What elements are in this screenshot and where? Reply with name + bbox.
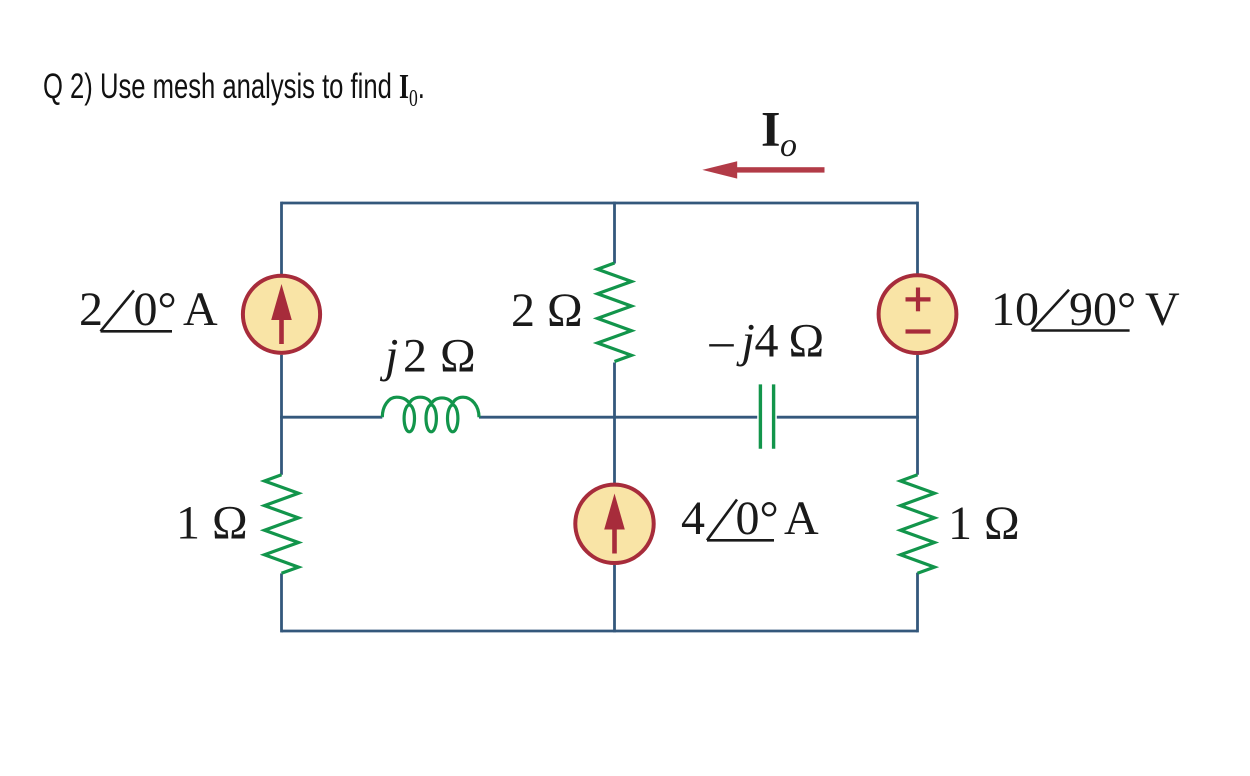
svg-text:V: V xyxy=(1145,283,1180,336)
arrow Io current direction xyxy=(702,161,824,178)
label 10angle90 V xyxy=(991,283,1180,336)
svg-text:Ω: Ω xyxy=(789,314,825,367)
label 4angle0 A xyxy=(681,492,819,545)
svg-text:Ω: Ω xyxy=(440,330,476,383)
wire bottom rail xyxy=(282,630,918,633)
svg-text:j: j xyxy=(736,314,755,367)
wire right vertical upper xyxy=(916,202,919,274)
resistor R2 2ohm xyxy=(598,263,632,361)
resistor R3 1ohm right xyxy=(901,475,935,573)
label Io xyxy=(761,100,797,164)
wire right vertical middle xyxy=(916,355,919,475)
capacitor C -j4 xyxy=(760,384,773,448)
svg-text:I: I xyxy=(761,100,780,156)
svg-text:j: j xyxy=(379,330,398,383)
svg-text:4: 4 xyxy=(681,492,705,545)
svg-text:1 Ω: 1 Ω xyxy=(176,497,248,550)
svg-text:A: A xyxy=(183,283,218,336)
svg-text:90°: 90° xyxy=(1069,283,1136,336)
wire right vertical lower xyxy=(916,573,919,633)
svg-text:A: A xyxy=(784,492,819,545)
svg-text:10: 10 xyxy=(991,283,1039,336)
svg-text:–: – xyxy=(709,314,735,367)
current source I1 2&#8736;0&#176; A xyxy=(243,276,320,353)
wire middle vertical mid xyxy=(613,363,616,484)
resistor R1 1ohm left xyxy=(265,475,299,573)
wire left vertical lower xyxy=(280,573,283,632)
wire left vertical upper xyxy=(280,202,283,274)
wire middle vertical upper xyxy=(613,202,616,264)
svg-text:2: 2 xyxy=(403,330,427,383)
label 2angle0 A xyxy=(79,283,218,336)
wire middle rail left xyxy=(280,416,382,419)
wire middle rail right of capacitor xyxy=(777,416,919,419)
svg-text:4: 4 xyxy=(755,314,779,367)
voltage source V1 10&#8736;90&#176; V xyxy=(879,275,957,353)
title xyxy=(43,70,425,104)
wire top rail xyxy=(282,202,918,205)
svg-text:0°: 0° xyxy=(134,283,177,336)
current source I2 4&#8736;0&#176; A xyxy=(575,485,653,563)
svg-text:2: 2 xyxy=(79,283,103,336)
svg-text:1 Ω: 1 Ω xyxy=(948,497,1020,550)
svg-text:0°: 0° xyxy=(736,492,779,545)
wire middle vertical lower xyxy=(613,565,616,632)
wire left vertical middle xyxy=(280,355,283,475)
label -j4 ohm xyxy=(709,314,825,367)
inductor L j2 xyxy=(382,397,479,432)
wire middle rail right of inductor xyxy=(479,416,757,419)
svg-text:o: o xyxy=(780,127,797,164)
svg-text:2 Ω: 2 Ω xyxy=(511,284,583,337)
